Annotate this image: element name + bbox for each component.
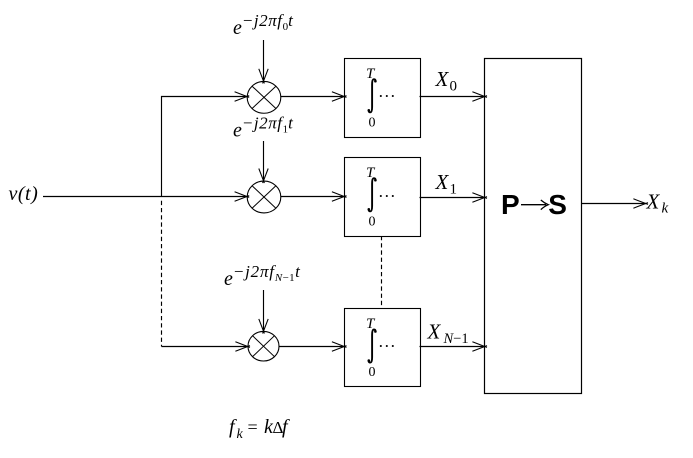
svg-text:X: X <box>435 170 450 194</box>
integrator I2 integral sign <box>369 178 376 211</box>
wire I3 to P/S box with node XN-1 <box>420 346 486 348</box>
integrator I3 integral sign <box>369 330 376 363</box>
svg-text:=: = <box>248 417 258 437</box>
wire arrow from e^-j2pi fN-1 t into multiplier M3 <box>263 290 265 332</box>
multiplier M2 <box>247 181 281 213</box>
parallel-to-serial converter U1 box <box>485 59 582 394</box>
wire main input line from v(t) to multiplier M2 <box>43 196 247 198</box>
svg-text:0: 0 <box>369 215 376 230</box>
svg-text:S: S <box>548 189 567 220</box>
integrator I1 integral sign <box>369 79 376 112</box>
svg-text:k: k <box>662 201 669 217</box>
wire arrow from e^-j2pi f1 t into multiplier M2 <box>263 141 265 181</box>
integrator I2 dots <box>380 195 394 197</box>
wire M3 to integrator I3 <box>279 346 345 348</box>
svg-text:X: X <box>646 189 661 213</box>
wire M2 to integrator I2 <box>281 196 345 198</box>
svg-text:X: X <box>435 67 450 91</box>
svg-text:0: 0 <box>450 79 458 95</box>
wire dashed branch down from junction to row 3 <box>161 201 163 347</box>
wire I2 to P/S box with node X1 <box>420 197 486 199</box>
svg-text:f: f <box>282 416 290 438</box>
multiplier M1 <box>247 81 281 113</box>
svg-text:v(t): v(t) <box>9 183 39 205</box>
integrator I2 box <box>345 158 421 237</box>
integrator I1 box <box>345 59 421 138</box>
integrator I3 box <box>345 309 421 387</box>
wire dashed between I2 and I3 <box>381 236 383 309</box>
wire branch vertical up from junction to row 1 <box>162 97 248 197</box>
svg-text:N−1: N−1 <box>443 331 469 347</box>
svg-text:e−j2πf0t: e−j2πf0t <box>233 11 294 39</box>
integrator I1 dots <box>380 95 394 97</box>
svg-text:X: X <box>427 320 442 344</box>
svg-text:1: 1 <box>450 182 458 198</box>
wire I1 to P/S box with node X0 <box>420 96 486 98</box>
integrator I3 dots <box>380 345 394 347</box>
wire output from U1 with node Xk <box>582 203 647 205</box>
svg-text:0: 0 <box>369 365 376 380</box>
svg-text:P: P <box>501 189 520 220</box>
wire row 3 horizontal into multiplier M3 <box>162 346 249 348</box>
svg-text:e−j2πf1t: e−j2πf1t <box>233 114 294 142</box>
wire arrow from e^-j2pi f0 t into multiplier M1 <box>263 40 265 81</box>
svg-text:0: 0 <box>369 116 376 131</box>
svg-text:k: k <box>237 427 244 442</box>
svg-text:e−j2πfN−1t: e−j2πfN−1t <box>224 262 301 290</box>
wire M1 to integrator I1 <box>281 96 345 98</box>
multiplier M3 <box>248 331 279 361</box>
